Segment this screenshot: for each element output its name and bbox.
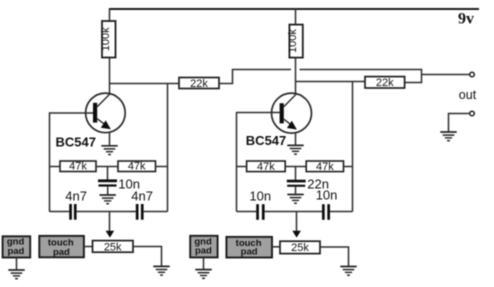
wire: stage2 bottom wire left bbox=[237, 211, 257, 213]
wire: output ground terminal to ground bbox=[449, 114, 470, 132]
svg-text:pad: pad bbox=[241, 247, 258, 258]
svg-text:47k: 47k bbox=[128, 161, 146, 173]
wire: output line after crossover gap bbox=[300, 70, 422, 83]
ground: stage1 10n bbox=[100, 195, 116, 204]
svg-text:25k: 25k bbox=[104, 241, 122, 253]
capacitor 22n (stage2) bbox=[287, 180, 306, 187]
ground: stage2 22n bbox=[287, 195, 303, 204]
wire: touch pad2 to 25k bbox=[272, 246, 280, 248]
capacitor 4n7 (stage1 right) bbox=[136, 204, 144, 220]
ground: Q2 emitter bbox=[287, 145, 303, 154]
wire: stage1 47k row right stub bbox=[156, 166, 168, 168]
wire: Q2 collector node to 22k (stage2) bbox=[296, 81, 366, 83]
svg-text:pad: pad bbox=[195, 246, 212, 257]
resistor R1 100k (stage 1 collector load) bbox=[100, 21, 116, 58]
resistor 47k (stage1 left) bbox=[60, 161, 96, 173]
capacitor 10n (stage1) bbox=[98, 179, 117, 186]
arrow: stage1 tap into 25k bbox=[106, 231, 115, 238]
pad: gnd pad (stage2) bbox=[190, 236, 217, 258]
wire: stage2 47k row middle bbox=[285, 166, 306, 168]
pad: gnd pad (stage1) bbox=[3, 236, 31, 257]
transistor Q1 BC547 (stage 1) bbox=[86, 93, 126, 133]
svg-text:47k: 47k bbox=[257, 161, 275, 173]
capacitor 10n (stage2 left) bbox=[256, 204, 264, 220]
wire: 22n to ground bbox=[295, 187, 297, 194]
capacitor 10n (stage2 right) bbox=[322, 204, 330, 220]
resistor 22k (stage 1 output mix) bbox=[179, 78, 219, 91]
pad: touch pad (stage1) bbox=[39, 236, 84, 258]
wire: node to out terminal bbox=[422, 74, 470, 76]
resistor 47k (stage1 right) bbox=[118, 161, 156, 173]
wire: stage1 left rail bbox=[49, 112, 51, 211]
svg-text:4n7: 4n7 bbox=[65, 188, 87, 203]
wire: stage2 center tap down with arrow bbox=[296, 212, 298, 232]
wire: Q2 base wire from left rail bbox=[237, 112, 280, 114]
wire: Q1 base wire from left rail bbox=[50, 112, 94, 114]
wire: 25k stage1 to ground bbox=[133, 247, 162, 267]
svg-text:22k: 22k bbox=[190, 78, 208, 90]
resistor 47k (stage2 right) bbox=[306, 161, 343, 173]
wire: touch pad1 to 25k bbox=[84, 246, 93, 248]
svg-text:47k: 47k bbox=[69, 161, 87, 173]
wire: 22k stage1 to output line (up and right, gap crossing over stage2 collector wire) bbox=[219, 70, 291, 84]
wire: Q1 collector node to 22k (stage1) bbox=[110, 83, 180, 85]
wire: stage1 bottom wire right bbox=[144, 211, 168, 213]
wire: stage2 left rail bbox=[236, 112, 238, 212]
ground: 25k stage1 bbox=[153, 266, 169, 275]
wire: stage1 47k row left stub bbox=[50, 166, 61, 168]
wire: Q1 emitter to ground bbox=[109, 133, 111, 146]
capacitor 4n7 (stage1 left) bbox=[69, 204, 76, 220]
ground: 25k stage2 bbox=[340, 267, 356, 276]
wire: stage1 right rail (junction at 22k wire down to bottom wire) bbox=[167, 84, 169, 212]
pad: touch pad (stage2) bbox=[226, 237, 272, 258]
wire: stage2 47k row left stub bbox=[237, 166, 247, 168]
arrow: stage2 tap into 25k bbox=[292, 231, 301, 238]
wire: 9v power rail bbox=[109, 8, 479, 10]
svg-text:25k: 25k bbox=[291, 242, 309, 254]
resistor 22k (stage 2 output mix) bbox=[365, 77, 405, 90]
wire: Q2 emitter to ground bbox=[295, 133, 297, 145]
svg-text:BC547: BC547 bbox=[56, 134, 96, 149]
wire: R2 bottom to Q2 collector node bbox=[295, 58, 297, 94]
svg-text:100k: 100k bbox=[287, 29, 299, 53]
terminal: out (open circle) bbox=[470, 72, 475, 77]
svg-text:100k: 100k bbox=[100, 27, 112, 51]
resistor 47k (stage2 left) bbox=[247, 161, 286, 173]
ground: output reference bbox=[440, 132, 456, 141]
svg-text:47k: 47k bbox=[316, 161, 334, 173]
ground: gnd pad2 bbox=[195, 270, 211, 279]
wire: gnd pad1 to ground bbox=[16, 258, 18, 270]
svg-text:22k: 22k bbox=[376, 77, 394, 89]
svg-text:10n: 10n bbox=[249, 188, 271, 203]
wire: rail to R2 top bbox=[295, 8, 297, 25]
svg-text:10n: 10n bbox=[316, 187, 338, 202]
wire: 25k stage2 to ground bbox=[320, 247, 349, 266]
resistor 25k (stage2) bbox=[280, 241, 320, 254]
wire: stage2 right rail bbox=[352, 82, 354, 212]
wire: stage1 bottom wire middle bbox=[77, 211, 136, 213]
wire: stage2 bottom wire middle bbox=[265, 211, 322, 213]
svg-text:BC547: BC547 bbox=[246, 133, 286, 148]
terminal: output ground reference (open circle) bbox=[470, 111, 475, 116]
resistor 25k (stage1) bbox=[93, 241, 134, 254]
wire: stage1 47k row middle bbox=[96, 166, 118, 168]
svg-text:pad: pad bbox=[53, 247, 70, 258]
wire: stage1 bottom wire left bbox=[50, 211, 70, 213]
transistor Q2 BC547 (stage 2) bbox=[272, 93, 312, 133]
wire: gnd pad2 to ground bbox=[203, 257, 205, 269]
ground: Q1 emitter bbox=[101, 146, 117, 155]
wire: stage2 bottom wire right bbox=[330, 211, 353, 213]
svg-text:4n7: 4n7 bbox=[131, 189, 153, 204]
wire: stage1 middle node stub down bbox=[107, 167, 109, 180]
svg-text:out: out bbox=[459, 88, 477, 102]
resistor R2 100k (stage 2 collector load) bbox=[287, 25, 303, 58]
wire: rail to R1 top bbox=[109, 8, 111, 22]
svg-text:9v: 9v bbox=[458, 11, 474, 28]
wire: stage1 center tap down with arrow bbox=[109, 212, 111, 232]
svg-text:pad: pad bbox=[7, 246, 24, 257]
wire: stage2 47k row right stub bbox=[344, 166, 353, 168]
ground: gnd pad1 bbox=[8, 270, 24, 279]
wire: stage2 middle node stub down bbox=[295, 167, 297, 180]
wire: R1 bottom to Q1 collector node bbox=[109, 58, 111, 94]
wire: 10n to ground bbox=[107, 187, 109, 195]
